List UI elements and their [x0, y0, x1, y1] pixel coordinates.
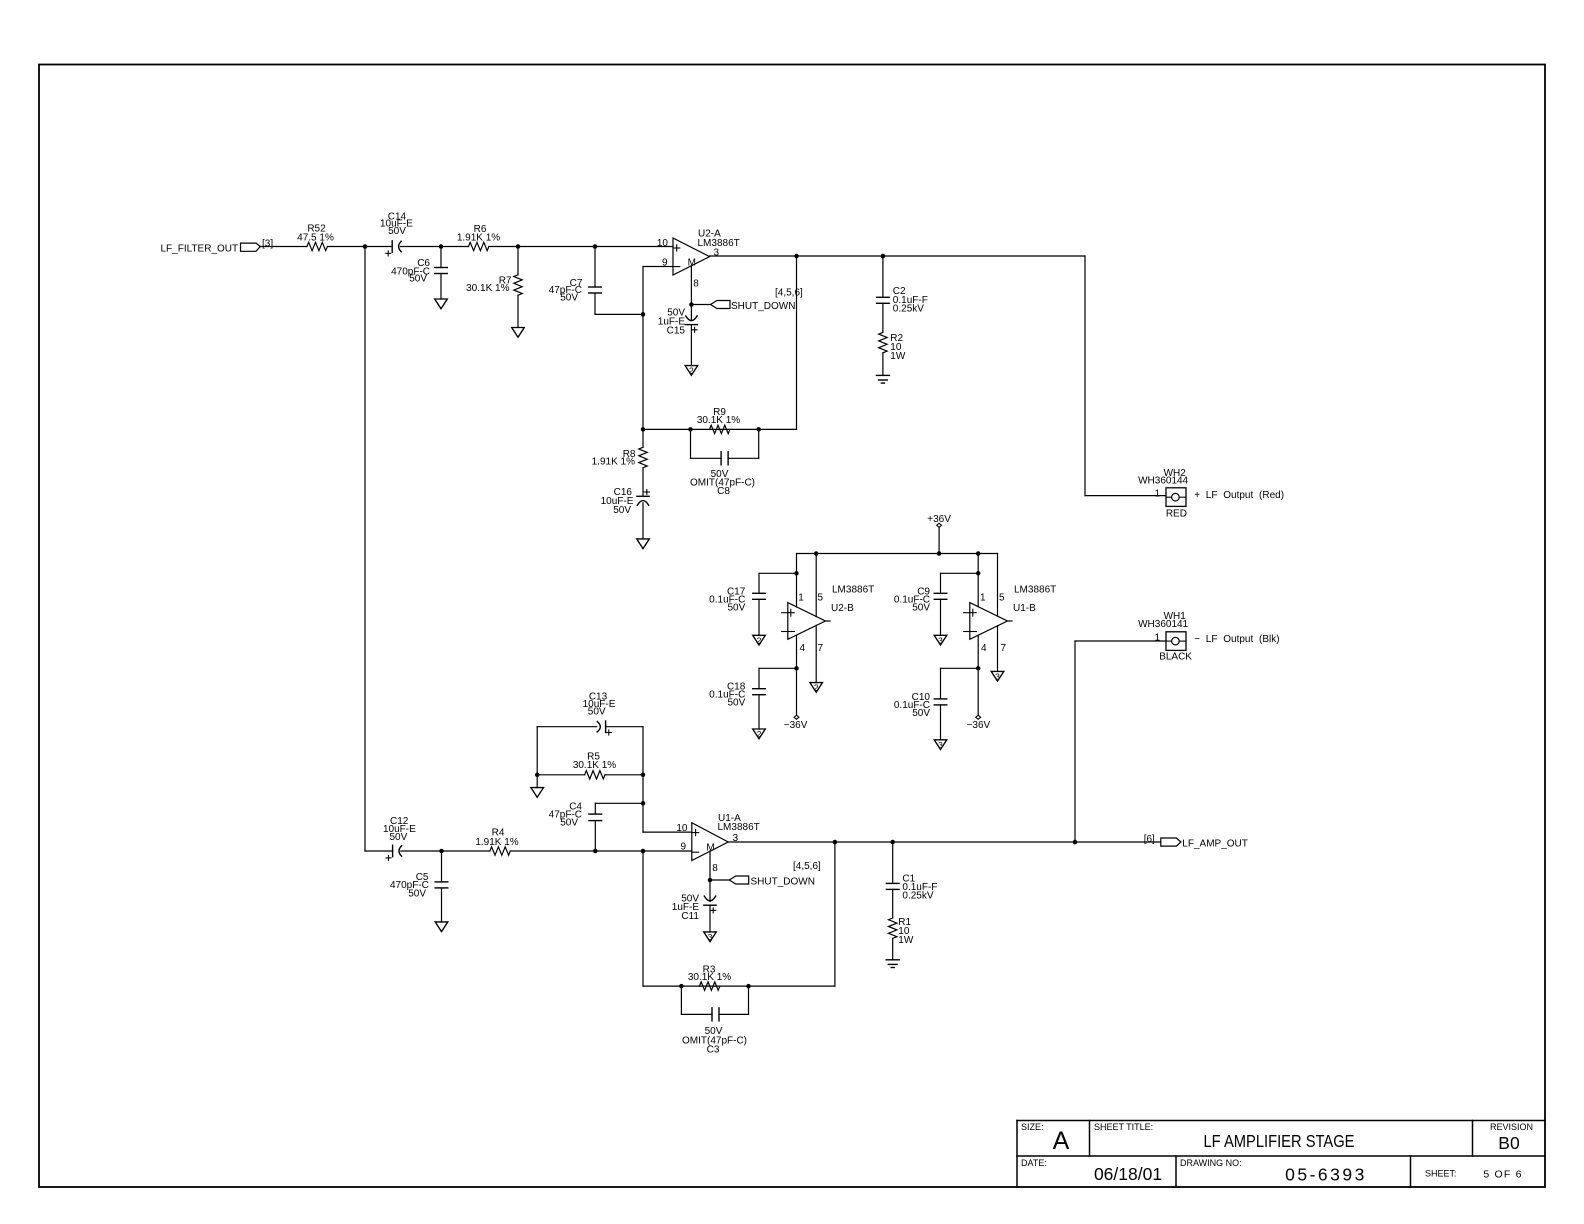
op-amp U2-B: [788, 603, 826, 640]
svg-text:0.25kV: 0.25kV: [893, 304, 924, 315]
port SHUT_DOWN lower: [710, 879, 729, 881]
wire pin4 column U1-B: [977, 635, 979, 668]
resistor R3: [700, 982, 720, 990]
ground pin7 U2-B: [810, 683, 823, 693]
svg-text:3: 3: [938, 740, 943, 750]
resistor R7: [517, 247, 519, 275]
svg-text:1: 1: [980, 592, 986, 603]
capacitor C2: [882, 256, 884, 297]
node C2 tap: [881, 254, 886, 259]
svg-text:1: 1: [1154, 632, 1160, 643]
wire input to R52: [260, 246, 307, 248]
wire U2-A inverting column: [642, 267, 644, 430]
capacitor C5: [441, 851, 443, 882]
resistor R9: [710, 425, 730, 433]
wire C13 left leg: [536, 727, 538, 788]
svg-text:1.91K 1%: 1.91K 1%: [457, 233, 500, 244]
capacitor C6: [440, 247, 442, 268]
node WH1 tap: [1073, 840, 1078, 845]
svg-text:REVISION: REVISION: [1490, 1122, 1533, 1132]
ground R5: [531, 788, 544, 798]
ground pin7 U1-B: [991, 671, 1004, 681]
port SHUT_DOWN upper: [691, 304, 710, 306]
svg-text:47.5 1%: 47.5 1%: [297, 232, 334, 243]
svg-text:5: 5: [999, 592, 1005, 603]
node C7 to inverting column: [641, 312, 646, 317]
svg-text:9: 9: [680, 842, 686, 853]
resistor R52: [307, 242, 327, 250]
resistor R5: [537, 774, 584, 776]
svg-text:30.1K 1%: 30.1K 1%: [466, 283, 509, 294]
svg-text:[3]: [3]: [262, 239, 273, 250]
svg-text:50V: 50V: [613, 505, 631, 516]
node R3 tap: [833, 840, 838, 845]
wire fb run bottom: [643, 985, 835, 987]
svg-text:C15: C15: [667, 326, 686, 337]
ground C16: [637, 539, 650, 549]
svg-text:8: 8: [712, 863, 718, 874]
svg-text:1: 1: [1154, 489, 1160, 500]
svg-text:DATE:: DATE:: [1021, 1158, 1047, 1168]
wire feedback run upper: [643, 428, 797, 430]
wire R4 to U1-A -in: [510, 850, 692, 852]
svg-text:[4,5,6]: [4,5,6]: [775, 287, 803, 298]
op-amp U1-B: [970, 603, 1008, 640]
pin 8 stub U1-A: [709, 851, 711, 880]
node pin4 U2-B: [794, 666, 799, 671]
capacitor C14: [391, 241, 393, 252]
node R5 right: [641, 773, 646, 778]
svg-text:2: 2: [689, 366, 694, 376]
resistor R4: [490, 847, 510, 855]
ground C11: [704, 932, 717, 942]
svg-text:2: 2: [814, 683, 819, 693]
svg-text:1.91K 1%: 1.91K 1%: [592, 457, 635, 468]
wire pin5 column U2-B: [815, 554, 817, 617]
op-amp U1-A: [692, 823, 728, 861]
svg-text:LF_FILTER_OUT: LF_FILTER_OUT: [161, 243, 239, 254]
svg-text:5 OF 6: 5 OF 6: [1483, 1169, 1522, 1181]
svg-text:50V: 50V: [409, 274, 427, 285]
connector WH2: [1166, 488, 1186, 507]
wire fb down bottom: [642, 851, 644, 986]
wire output to WH2: [1084, 256, 1086, 496]
svg-text:30.1K 1%: 30.1K 1%: [697, 415, 740, 426]
svg-text:C8: C8: [717, 486, 730, 497]
svg-text:3: 3: [995, 671, 1000, 681]
svg-text:05-6393: 05-6393: [1285, 1165, 1367, 1185]
svg-text:3: 3: [938, 635, 943, 645]
svg-text:06/18/01: 06/18/01: [1094, 1164, 1162, 1184]
ground C10: [934, 740, 947, 750]
capacitor C3 omit: [680, 986, 682, 1014]
wire R52 to C14: [327, 246, 392, 248]
node R9 right: [756, 427, 761, 432]
node C4 tap: [593, 849, 598, 854]
capacitor C7: [594, 247, 596, 288]
node pin1 U2-B: [794, 571, 799, 576]
node pin4 U1-B: [976, 666, 981, 671]
node rail +36V: [937, 551, 942, 556]
node mute U2-A: [689, 302, 694, 307]
wire left corner to C12: [365, 850, 393, 852]
node feedback tap upper: [794, 254, 799, 259]
svg-text:[4,5,6]: [4,5,6]: [793, 861, 821, 872]
wire feedback down: [796, 256, 798, 429]
capacitor C12: [392, 845, 394, 856]
svg-text:7: 7: [1001, 643, 1007, 654]
svg-text:50V: 50V: [728, 602, 746, 613]
node input junction: [363, 244, 368, 249]
capacitor C10: [941, 667, 979, 669]
capacitor C8 omit: [690, 429, 692, 458]
node C5 tap: [439, 849, 444, 854]
svg-text:2: 2: [757, 729, 762, 739]
svg-text:50V: 50V: [408, 889, 426, 900]
svg-text:1W: 1W: [890, 351, 906, 362]
svg-text:3: 3: [714, 247, 720, 258]
svg-text:B0: B0: [1498, 1133, 1520, 1153]
capacitor C13: [537, 726, 597, 728]
svg-text:A: A: [1053, 1127, 1070, 1155]
power -36V terminal U1-B: [977, 668, 979, 715]
resistor R8: [642, 429, 644, 447]
node rail pin5 U2-B: [814, 551, 819, 556]
svg-text:50V: 50V: [560, 818, 578, 829]
wire pin7 column U2-B: [815, 625, 817, 682]
svg-text:4: 4: [981, 643, 987, 654]
svg-text:30.1K 1%: 30.1K 1%: [573, 760, 616, 771]
capacitor C18: [759, 667, 797, 669]
svg-text:50V: 50V: [388, 226, 406, 237]
svg-text:1W: 1W: [898, 935, 914, 946]
svg-text:SHUT_DOWN: SHUT_DOWN: [731, 301, 795, 312]
svg-text:4: 4: [800, 643, 806, 654]
node R3 right: [746, 984, 751, 989]
svg-text:10: 10: [676, 823, 688, 834]
svg-text:0.25kV: 0.25kV: [902, 891, 933, 902]
svg-text:3: 3: [708, 932, 713, 942]
svg-text:8: 8: [693, 278, 699, 289]
node fb tap bottom: [641, 849, 646, 854]
svg-text:C11: C11: [681, 911, 699, 922]
svg-text:LF_AMP_OUT: LF_AMP_OUT: [1182, 838, 1248, 849]
ground R2 earth: [876, 374, 889, 376]
svg-text:+ LF Output (Red): + LF Output (Red): [1194, 490, 1284, 501]
svg-text:RED: RED: [1166, 509, 1187, 520]
svg-text:7: 7: [818, 643, 824, 654]
pin 8 stub U2-A: [690, 266, 692, 305]
wire pin5 column U1-B: [997, 554, 999, 617]
svg-text:5: 5: [818, 592, 824, 603]
svg-text:50V: 50V: [912, 708, 930, 719]
resistor R2: [879, 332, 887, 352]
svg-text:SHEET:: SHEET:: [1425, 1169, 1457, 1179]
svg-text:10: 10: [657, 238, 669, 249]
svg-text:−36V: −36V: [784, 720, 808, 731]
node pin1 U1-B: [976, 571, 981, 576]
svg-text:50V: 50V: [728, 698, 746, 709]
node C1 tap: [890, 840, 895, 845]
wire pin1 column U1-B: [977, 554, 979, 607]
capacitor C17: [759, 572, 797, 574]
svg-text:LM3886T: LM3886T: [832, 585, 874, 596]
node rail pin1 U1-B: [976, 551, 981, 556]
wire pin4 column U2-B: [796, 635, 798, 668]
svg-text:U1-B: U1-B: [1013, 603, 1036, 614]
wire C14 to R6: [401, 246, 469, 248]
svg-text:SHEET TITLE:: SHEET TITLE:: [1094, 1122, 1153, 1132]
svg-text:LF AMPLIFIER STAGE: LF AMPLIFIER STAGE: [1204, 1131, 1355, 1151]
wire U1-A fb column: [642, 727, 644, 832]
svg-text:LM3886T: LM3886T: [718, 822, 760, 833]
svg-text:50V: 50V: [912, 602, 930, 613]
svg-text:WH360141: WH360141: [1138, 619, 1188, 630]
title block grid: [1017, 1120, 1545, 1122]
ground C9: [934, 635, 947, 645]
svg-text:SHUT_DOWN: SHUT_DOWN: [751, 877, 815, 888]
wire R6 to U2-A +in: [489, 246, 673, 248]
node R9 left: [688, 427, 693, 432]
capacitor C11: [709, 880, 711, 902]
op-amp U2-A: [673, 238, 710, 275]
node R7 tap: [516, 244, 521, 249]
power -36V terminal U2-B: [796, 668, 798, 715]
svg-text:DRAWING NO:: DRAWING NO:: [1180, 1158, 1242, 1168]
ground C5: [435, 922, 448, 932]
ground C17: [753, 635, 766, 645]
svg-text:2: 2: [757, 635, 762, 645]
svg-text:−36V: −36V: [967, 720, 991, 731]
node R3 left: [679, 984, 684, 989]
svg-text:50V: 50V: [390, 832, 408, 843]
svg-text:BLACK: BLACK: [1159, 651, 1192, 662]
resistor R6: [469, 242, 489, 250]
node C6 tap: [439, 244, 444, 249]
wire pin7 column U1-B: [997, 626, 999, 672]
wire C12 to R4: [401, 850, 490, 852]
capacitor C16: [644, 491, 649, 493]
node C7 tap: [593, 244, 598, 249]
svg-text:9: 9: [662, 257, 668, 268]
svg-text:LM3886T: LM3886T: [1014, 585, 1056, 596]
capacitor C15: [690, 305, 692, 321]
connector WH1: [1166, 632, 1186, 651]
ground C6: [435, 299, 448, 309]
wire U2-A output: [710, 255, 1086, 257]
capacitor C9: [941, 572, 979, 574]
ground R7: [512, 328, 525, 338]
wire fb right riser: [834, 842, 836, 986]
capacitor C1: [892, 842, 894, 883]
wire U1-A output: [728, 841, 1161, 843]
node mute U1-A: [708, 878, 713, 883]
svg-text:30.1K 1%: 30.1K 1%: [688, 972, 731, 983]
resistor R1: [889, 918, 897, 938]
svg-text:SIZE:: SIZE:: [1021, 1122, 1044, 1132]
svg-text:− LF Output (Blk): − LF Output (Blk): [1194, 634, 1279, 645]
ground R1 earth: [886, 959, 899, 961]
ground C18: [753, 729, 766, 739]
svg-text:50V: 50V: [588, 707, 606, 718]
ground C15: [685, 366, 698, 376]
wire power rail: [797, 553, 998, 555]
svg-text:U2-B: U2-B: [831, 603, 854, 614]
svg-text:1: 1: [798, 592, 804, 603]
wire pin1 column U2-B: [796, 554, 798, 607]
svg-text:C3: C3: [707, 1044, 720, 1055]
node C4 to fb column: [641, 801, 646, 806]
svg-text:1.91K 1%: 1.91K 1%: [475, 837, 518, 848]
node fb left upper: [641, 427, 646, 432]
svg-text:50V: 50V: [560, 293, 578, 304]
svg-text:WH360144: WH360144: [1138, 476, 1188, 487]
svg-text:[6]: [6]: [1144, 834, 1155, 845]
node R5 left: [535, 773, 540, 778]
capacitor C4: [594, 821, 596, 851]
wire long left vertical: [364, 247, 366, 852]
wire WH1 to output line: [1074, 641, 1076, 842]
